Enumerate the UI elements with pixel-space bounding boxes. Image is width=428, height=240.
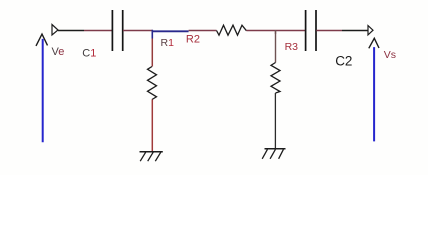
wire: to output terminal (black part) — [342, 30, 368, 32]
wire: C2 right plate out (dark red part) — [316, 30, 342, 32]
ground 1 hatch stroke right — [155, 152, 161, 161]
ground 1 hatch stroke middle — [148, 152, 154, 161]
wire: node A to R2 (blue segment) — [152, 30, 189, 32]
svg-text:C2: C2 — [335, 53, 352, 68]
resistor R2 zigzag — [217, 25, 247, 35]
resistor R3 zigzag — [271, 63, 280, 94]
Ve arrow head (caret) — [36, 34, 48, 46]
capacitor C1 left plate — [111, 10, 113, 51]
node A junction tick (blue) — [151, 30, 153, 39]
svg-text:R2: R2 — [186, 34, 200, 46]
R3 bottom lead wire (black) — [274, 93, 276, 149]
Vs arrow stem (blue vertical line) — [373, 47, 375, 141]
wire: to C1 left plate (dark red part) — [84, 30, 112, 32]
ground 1 hatch stroke left — [140, 152, 146, 161]
ground 2 hatch stroke middle — [270, 149, 275, 158]
resistor R1 zigzag — [148, 67, 157, 100]
R1 top lead wire (dark red) — [151, 39, 153, 67]
svg-text:Ve: Ve — [52, 46, 65, 58]
svg-text:Vs: Vs — [384, 49, 396, 61]
R1 bottom lead wire (dark red) — [151, 100, 153, 152]
ground 2 hatch stroke left — [262, 149, 267, 158]
ground 2 horizontal bar — [265, 148, 286, 150]
wire: terminal to C1 (black part) — [58, 30, 84, 32]
capacitor C2 left plate — [305, 10, 307, 51]
svg-text:R3: R3 — [285, 41, 299, 53]
ground 1 horizontal bar — [140, 151, 163, 153]
svg-text:C1: C1 — [82, 48, 96, 60]
Vs arrow head (caret) — [369, 38, 379, 48]
capacitor C2 right plate — [315, 10, 317, 51]
svg-text:R1: R1 — [161, 37, 175, 49]
ground 2 hatch stroke right — [279, 149, 284, 158]
capacitor C1 right plate — [122, 10, 124, 51]
wire: blue to R2 start (dark red) — [189, 30, 217, 32]
R3 top lead wire (grey) — [275, 30, 277, 63]
wire: R2 to node B to C2 (dark red) — [246, 30, 305, 32]
Ve arrow stem (blue vertical line) — [42, 39, 44, 142]
output terminal triangle (Vs) — [368, 26, 373, 35]
wire: C1 to node A (dark red) — [123, 30, 153, 32]
input terminal triangle (Ve source) — [52, 25, 58, 36]
node B junction tick (grey) — [275, 30, 277, 34]
